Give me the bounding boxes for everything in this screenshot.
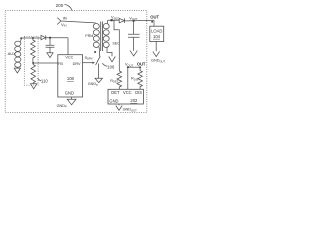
label 200 leader xyxy=(65,5,73,11)
svg-text:OUT: OUT xyxy=(137,61,146,66)
dot V_OUT node xyxy=(133,20,135,22)
lower V_OUT rail xyxy=(128,66,140,68)
dot divider top xyxy=(32,37,34,39)
dot AUX top xyxy=(20,37,22,39)
svg-text:PRM: PRM xyxy=(85,34,93,38)
ground C_out chevron xyxy=(130,51,137,56)
LOAD box 104 xyxy=(150,26,164,41)
svg-text:104: 104 xyxy=(153,34,161,39)
wire AUX bottom stub xyxy=(16,66,18,69)
IC box 202 xyxy=(108,89,143,104)
resistor R1 upper divider xyxy=(31,38,36,63)
primary winding PRM xyxy=(93,24,99,29)
aux winding AUX xyxy=(15,41,21,46)
diode D_out xyxy=(119,18,124,23)
svg-text:200: 200 xyxy=(56,3,64,8)
svg-text:DIS: DIS xyxy=(135,90,142,95)
switch 106 xyxy=(96,50,101,78)
svg-text:GND: GND xyxy=(65,91,74,96)
dot VCC node xyxy=(49,37,51,39)
leader 106 xyxy=(102,63,107,66)
resistor R2 lower divider xyxy=(31,63,36,84)
svg-text:DRV: DRV xyxy=(73,62,81,66)
ground C_vcc (open triangle) xyxy=(47,53,53,58)
svg-text:AUX: AUX xyxy=(8,51,17,56)
diode D_aux xyxy=(41,35,46,40)
secondary winding SEC xyxy=(103,24,109,29)
wire VCC to IC108 xyxy=(67,38,69,55)
svg-text:LOAD: LOAD xyxy=(151,28,162,33)
IC box 108 xyxy=(58,55,83,97)
wire diode to OUT xyxy=(125,19,154,22)
leader 110 xyxy=(38,78,42,81)
ground IC108 (open triangle) xyxy=(67,97,76,105)
ground switch (open triangle) xyxy=(95,78,103,82)
svg-text:VCC: VCC xyxy=(123,90,132,95)
wire SEC top stub to V_SEC rail xyxy=(107,20,119,24)
dot divider mid FB node xyxy=(32,62,34,64)
resistor R_DIS xyxy=(138,67,143,89)
wire AUX top stub xyxy=(19,38,22,41)
core lines xyxy=(101,22,103,52)
dashed border block 200 xyxy=(5,11,147,113)
svg-text:202: 202 xyxy=(130,98,138,103)
dot V_SEC node xyxy=(111,19,113,21)
wire SEC bottom to sec ground xyxy=(107,47,112,56)
dashed box 110 xyxy=(24,36,38,85)
dot PRM polarity xyxy=(94,51,96,53)
svg-text:108: 108 xyxy=(67,76,75,81)
svg-text:106: 106 xyxy=(107,64,115,69)
wire DRV gate xyxy=(83,62,94,64)
svg-text:FB: FB xyxy=(58,62,63,66)
svg-text:DET: DET xyxy=(111,90,120,95)
LOAD gnd stem xyxy=(155,42,157,52)
resistor R_DET xyxy=(117,71,122,89)
svg-text:IN: IN xyxy=(63,16,67,21)
ground divider (open triangle) xyxy=(31,84,37,89)
capacitor C_vcc xyxy=(46,38,55,53)
wire FB xyxy=(33,62,58,64)
svg-text:VIN: VIN xyxy=(61,22,66,28)
svg-text:GND: GND xyxy=(109,98,118,103)
wire OUT corner down to LOAD xyxy=(153,20,155,26)
svg-text:VCC: VCC xyxy=(65,56,73,60)
gnd 202 stem xyxy=(118,104,120,105)
wire PRM bottom stub xyxy=(98,47,100,50)
ground LOAD chevron xyxy=(153,51,160,56)
ground 202 chevron xyxy=(116,106,122,111)
capacitor C_out xyxy=(128,21,140,51)
terminal IN chevron xyxy=(57,18,61,25)
wire IN to PRM top xyxy=(61,21,96,23)
svg-text:SEC: SEC xyxy=(112,41,120,45)
svg-text:110: 110 xyxy=(41,78,48,83)
svg-text:OUT: OUT xyxy=(150,14,159,19)
wire AUX rail xyxy=(21,37,41,39)
wire V_SEC sense down to R_DET xyxy=(114,20,119,71)
ground aux (open triangle) xyxy=(14,68,20,73)
ground sec chevron xyxy=(109,57,116,62)
dot on OUT wire xyxy=(151,21,153,23)
wire diode to VCC node xyxy=(46,37,68,39)
wire VCC 202 xyxy=(127,67,129,89)
